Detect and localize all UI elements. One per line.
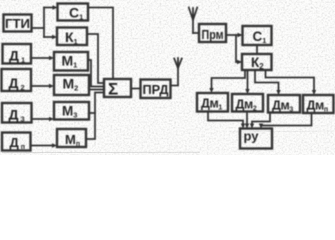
- arrow into Dm1: [209, 88, 213, 93]
- wire C1 out to sum top: [88, 8, 113, 80]
- arrow Dm1 into RU: [241, 124, 245, 129]
- block Dm3 demodulator: [268, 95, 300, 113]
- block Mn modulator: [57, 129, 86, 147]
- wire K2 to Dmn: [266, 70, 315, 92]
- wire C1r to K2 link: [256, 45, 258, 54]
- block RU decision: [240, 129, 272, 149]
- wire D2 to M2: [31, 85, 51, 87]
- block C1 receive: [243, 26, 272, 45]
- arrow into M3: [49, 117, 54, 121]
- arrow into Dm3: [276, 90, 280, 95]
- arrow Dm3 into RU: [250, 124, 254, 129]
- block GTI (clock pulse generator): [4, 15, 32, 32]
- arrow into Dmn: [312, 90, 316, 95]
- wire GTI out: [32, 27, 44, 29]
- wire Prm out junction: [226, 34, 240, 36]
- wire Dmn to RU: [261, 113, 312, 126]
- wire Dm1 to RU: [208, 112, 243, 127]
- wire D3 to M3: [32, 118, 52, 120]
- block D2 source: [2, 69, 32, 91]
- arrow into Dm2: [245, 89, 249, 94]
- arrow into C1: [53, 5, 58, 9]
- wire K2 to Dm3: [255, 70, 279, 92]
- wire Mn out joins M3 to sum: [86, 93, 104, 140]
- block Sigma summer: [104, 79, 131, 97]
- block Dm2 demodulator: [232, 94, 263, 112]
- wire Dm3 to RU: [252, 113, 270, 127]
- block C1 transmit: [58, 4, 89, 21]
- arrow into K2: [237, 60, 242, 64]
- wire sum to PRD: [131, 88, 141, 90]
- antenna RX: [189, 8, 197, 34]
- block D3 source: [2, 103, 32, 123]
- wire K2 to Dm1: [212, 70, 246, 90]
- arrow into C1r: [238, 33, 243, 37]
- svg-text:Прм: Прм: [202, 28, 224, 42]
- antenna TX: [174, 58, 182, 68]
- wire PRD to antenna: [171, 62, 179, 86]
- wire to K1: [44, 36, 54, 38]
- arrow into M2: [49, 84, 54, 88]
- wire clock bus vertical: [43, 8, 45, 38]
- arrow Dmn into RU: [259, 124, 263, 129]
- wire M1 out to sum: [88, 60, 104, 87]
- block Prm receiver: [199, 24, 226, 42]
- svg-text:Σ: Σ: [108, 80, 118, 99]
- block Dm1 demodulator: [197, 93, 228, 112]
- block M1 modulator: [54, 52, 88, 71]
- svg-text:ПРД: ПРД: [143, 82, 170, 97]
- block D1 source: [3, 44, 32, 64]
- arrow Dm2 into RU: [245, 124, 249, 129]
- svg-text:ГТИ: ГТИ: [5, 16, 30, 31]
- block K2: [242, 54, 272, 70]
- arrow into M1: [49, 56, 54, 60]
- wire Dn to Mn: [31, 145, 55, 147]
- block M3 modulator: [54, 102, 89, 120]
- arrow into Mn: [52, 143, 57, 147]
- wire K1 out to sum: [87, 34, 104, 83]
- wire M3 out: [89, 112, 95, 114]
- svg-text:ру: ру: [244, 129, 260, 144]
- block Dn source: [2, 133, 31, 151]
- block M2 modulator: [54, 75, 89, 95]
- wire K2 to Dm2: [247, 70, 249, 92]
- wire Dm2 to RU: [246, 112, 248, 127]
- paper speckle noise: [12, 5, 331, 152]
- wire M2 out to sum: [89, 89, 104, 91]
- wire junction down to K2: [236, 35, 240, 62]
- block PRD transmitter: [141, 80, 171, 99]
- block Dmn demodulator: [303, 95, 334, 113]
- faint page artifact line: [2, 151, 200, 154]
- arrow into K1: [52, 35, 57, 39]
- wire to C1: [44, 7, 55, 9]
- block K1: [57, 28, 87, 46]
- wire antenna to Prm: [193, 32, 199, 34]
- wire D1 to M1: [31, 57, 51, 59]
